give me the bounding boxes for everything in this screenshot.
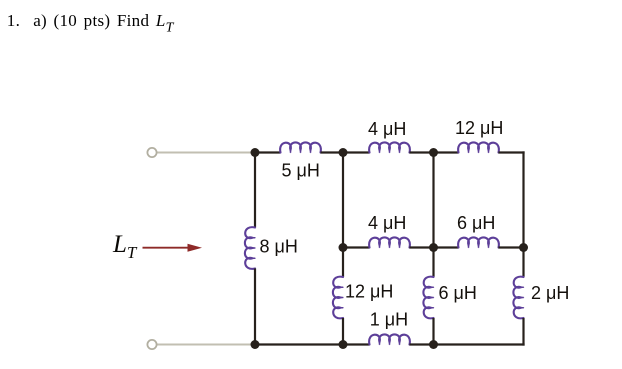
svg-text:8 μH: 8 μH <box>260 236 298 256</box>
svg-text:12 μH: 12 μH <box>345 281 393 301</box>
svg-text:2 μH: 2 μH <box>531 283 569 303</box>
svg-text:12 μH: 12 μH <box>455 118 503 138</box>
svg-text:6 μH: 6 μH <box>439 283 477 303</box>
svg-text:5 μH: 5 μH <box>282 161 320 181</box>
svg-text:6 μH: 6 μH <box>457 213 495 233</box>
svg-text:1 μH: 1 μH <box>370 309 408 329</box>
svg-text:4 μH: 4 μH <box>368 213 406 233</box>
svg-text:4 μH: 4 μH <box>368 119 406 139</box>
